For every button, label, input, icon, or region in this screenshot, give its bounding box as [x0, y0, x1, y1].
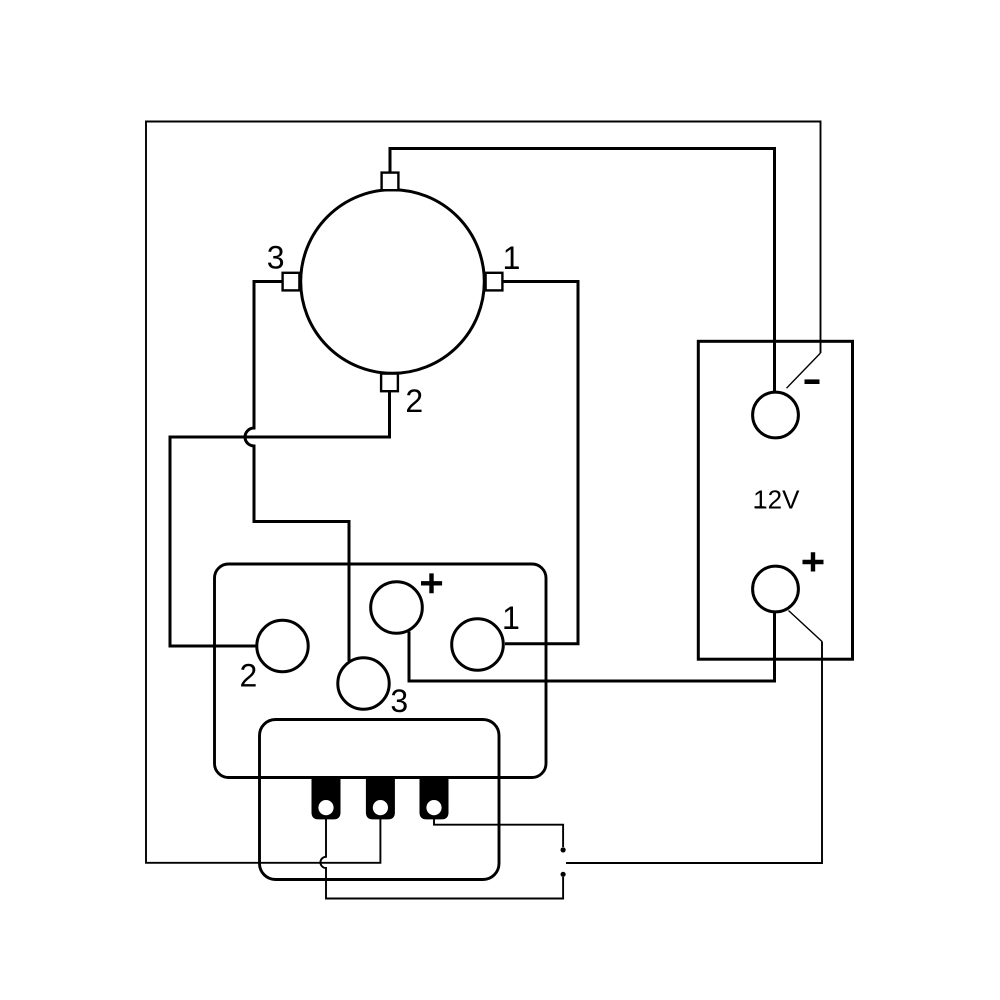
label: battery plus sign	[803, 552, 824, 571]
wire: thin diagonal leader from battery plus terminal to switch wire	[789, 611, 823, 642]
svg-text:3: 3	[267, 240, 285, 276]
hole in tab 2	[373, 800, 388, 815]
svg-text:2: 2	[240, 658, 258, 694]
wire: third tab to switch upper contact	[434, 806, 563, 847]
wire: outer loop from battery minus along top/left/bottom to middle tab (net B-)	[146, 122, 821, 863]
motor terminal square top	[382, 173, 399, 191]
wire: connector plus circle to battery plus terminal (thick)	[409, 613, 775, 682]
svg-text:2: 2	[405, 383, 423, 419]
wire: motor terminal top to battery minus (thick)	[390, 149, 775, 393]
connector circle plus	[371, 582, 423, 634]
connector housing (inner rounded rectangle)	[260, 720, 500, 880]
wire: motor terminal 3 to connector circle 3 with hop over terminal-2 wire	[245, 282, 349, 662]
connector circle 2	[257, 620, 308, 671]
wire: thin diagonal leader from outer loop into battery minus terminal	[787, 353, 821, 388]
svg-text:1: 1	[503, 240, 521, 276]
battery box 12V	[698, 341, 852, 659]
svg-text:1: 1	[502, 600, 520, 636]
battery plus terminal circle	[753, 566, 799, 612]
connector block body (large rounded rectangle)	[215, 564, 547, 778]
motor terminal square right (pin 1)	[486, 273, 503, 291]
label: battery minus sign	[805, 379, 820, 384]
node: switch lower contact dot	[561, 872, 566, 877]
connector circle 3	[338, 658, 389, 709]
tab terminal 1 (black spade)	[312, 777, 341, 820]
label: connector plus sign	[421, 573, 442, 593]
battery minus terminal circle	[753, 392, 799, 438]
hole in tab 3	[426, 800, 441, 815]
hole in tab 1	[318, 800, 333, 815]
svg-text:12V: 12V	[753, 484, 800, 514]
connector circle 1	[452, 619, 504, 671]
wire: switch lower contact to first tab with hop over tab2 wire	[320, 806, 563, 899]
motor terminal square bottom (pin 2)	[381, 374, 398, 392]
tab terminal 2 (black spade)	[366, 777, 395, 820]
motor body (large circle)	[301, 190, 485, 374]
node: switch upper contact dot	[561, 847, 566, 852]
wire: motor terminal 2 to connector circle 2 (thick)	[170, 391, 390, 646]
motor terminal square left (pin 3)	[283, 273, 300, 291]
svg-text:3: 3	[390, 683, 408, 719]
wire: motor terminal 1 to connector circle 1 (thick)	[503, 282, 578, 644]
wire: switch common from battery plus	[566, 642, 822, 864]
tab terminal 3 (black spade)	[420, 777, 449, 820]
